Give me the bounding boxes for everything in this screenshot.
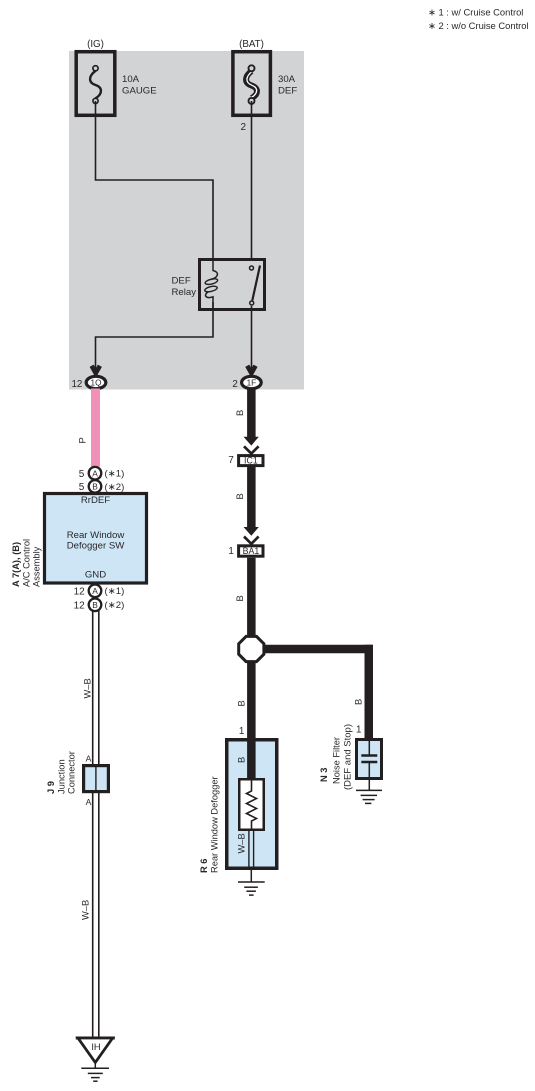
svg-text:B: B [237, 700, 247, 706]
svg-text:5: 5 [79, 469, 85, 480]
svg-text:(IG): (IG) [87, 39, 104, 50]
svg-text:Rear Window Defogger: Rear Window Defogger [210, 776, 220, 873]
svg-text:W–B: W–B [237, 833, 247, 853]
svg-text:12: 12 [74, 586, 86, 597]
svg-text:DEF: DEF [278, 86, 297, 97]
svg-text:12: 12 [74, 600, 86, 611]
svg-text:IH: IH [91, 1042, 100, 1052]
svg-text:(∗2): (∗2) [105, 600, 125, 611]
svg-text:A: A [86, 754, 92, 764]
svg-text:A/C Control: A/C Control [22, 539, 32, 587]
svg-text:1Q: 1Q [91, 379, 102, 388]
svg-text:GAUGE: GAUGE [122, 86, 157, 97]
svg-text:Connector: Connector [67, 751, 77, 794]
svg-text:DEF: DEF [172, 276, 191, 287]
svg-text:RrDEF: RrDEF [81, 495, 110, 506]
svg-text:∗ 2 : w/o Cruise Control: ∗ 2 : w/o Cruise Control [428, 20, 529, 31]
svg-text:IC1: IC1 [244, 456, 258, 466]
svg-text:7: 7 [228, 455, 233, 466]
svg-text:P: P [78, 437, 88, 443]
svg-text:B: B [92, 482, 98, 492]
svg-text:W–B: W–B [81, 900, 91, 920]
svg-text:1: 1 [228, 546, 233, 557]
svg-text:∗ 1 : w/ Cruise Control: ∗ 1 : w/ Cruise Control [428, 6, 523, 17]
svg-text:B: B [354, 699, 364, 705]
svg-text:R 6: R 6 [199, 859, 209, 873]
svg-text:W–B: W–B [83, 678, 93, 698]
svg-text:N 3: N 3 [319, 768, 329, 782]
svg-text:J 9: J 9 [46, 781, 56, 794]
svg-text:B: B [92, 600, 98, 610]
svg-text:B: B [235, 410, 245, 416]
svg-text:(∗2): (∗2) [105, 482, 125, 493]
svg-text:5: 5 [79, 482, 85, 493]
svg-text:2: 2 [240, 122, 246, 133]
svg-text:(BAT): (BAT) [239, 39, 264, 50]
svg-text:Junction: Junction [57, 759, 67, 794]
svg-text:(DEF and Stop): (DEF and Stop) [343, 724, 354, 790]
svg-text:GND: GND [85, 570, 106, 581]
svg-text:1: 1 [239, 726, 244, 737]
svg-text:Noise Filter: Noise Filter [332, 737, 342, 784]
svg-text:1: 1 [356, 725, 361, 736]
svg-text:12: 12 [71, 379, 82, 390]
svg-text:Assembly: Assembly [32, 546, 42, 587]
svg-text:B: B [235, 595, 245, 601]
svg-text:Rear Window: Rear Window [67, 530, 125, 541]
svg-text:30A: 30A [278, 74, 296, 85]
svg-text:(∗1): (∗1) [105, 586, 125, 597]
svg-text:Relay: Relay [172, 287, 197, 298]
svg-text:10A: 10A [122, 74, 140, 85]
svg-text:B: B [235, 493, 245, 499]
svg-text:BA1: BA1 [243, 546, 260, 556]
svg-text:(∗1): (∗1) [105, 469, 125, 480]
svg-text:B: B [236, 757, 246, 763]
svg-text:Defogger SW: Defogger SW [67, 540, 126, 551]
svg-text:1F: 1F [247, 379, 257, 388]
svg-text:2: 2 [232, 379, 237, 390]
svg-text:A 7(A), (B): A 7(A), (B) [11, 542, 21, 587]
svg-text:A: A [86, 797, 92, 807]
svg-text:A: A [92, 468, 98, 478]
svg-text:A: A [92, 586, 98, 596]
